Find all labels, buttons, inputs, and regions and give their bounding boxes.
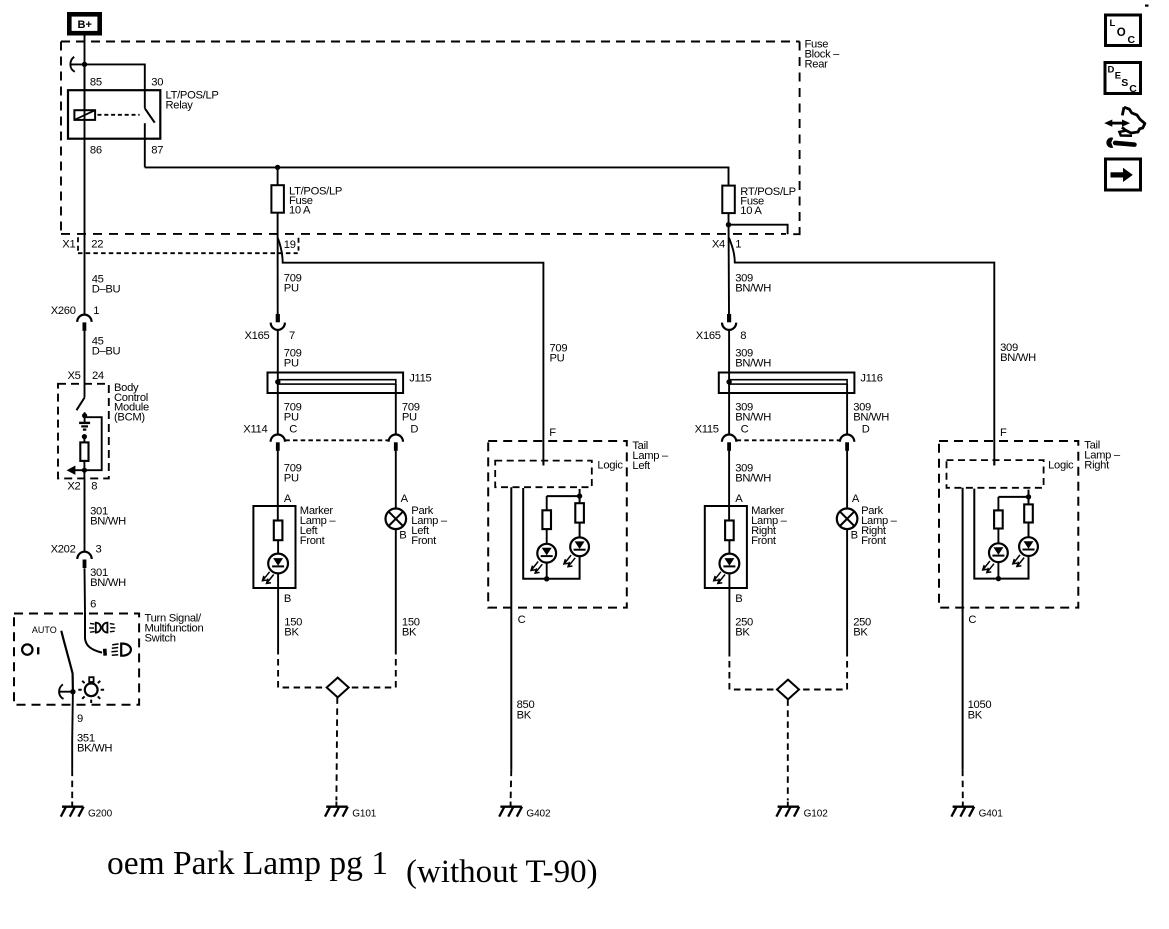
connector row X1/X4 top dashed line	[61, 233, 786, 235]
splice pack J115 box	[268, 373, 432, 394]
relay switch blade	[145, 108, 155, 122]
svg-text:F: F	[1000, 427, 1007, 439]
wire coil bottom (86) down to X1 pin 22	[84, 64, 86, 314]
park lamp contact nub	[103, 649, 107, 656]
J116 bus bar	[729, 380, 847, 384]
svg-text:C: C	[968, 614, 976, 626]
connector X202 labels	[51, 544, 102, 556]
tail right resistor 1	[994, 510, 1003, 528]
svg-text:X202: X202	[51, 544, 76, 556]
svg-text:BK: BK	[735, 627, 750, 639]
icon LOC button	[1106, 15, 1141, 46]
svg-text:B: B	[399, 530, 406, 542]
svg-text:D: D	[1108, 65, 1115, 76]
wire label 250 BK left	[735, 617, 753, 639]
BCM dashed box	[58, 382, 149, 478]
connector X165-8 labels	[696, 330, 747, 342]
svg-text:X5: X5	[68, 370, 81, 382]
wire stub right of RT fuse node	[729, 225, 788, 235]
svg-text:C: C	[741, 424, 749, 436]
marker lamp left front box	[253, 493, 336, 605]
svg-text:AUTO: AUTO	[32, 625, 57, 635]
svg-text:87: 87	[151, 144, 163, 156]
wire label 45 D-BU lower	[92, 336, 121, 358]
wire label 351 BK/WH	[77, 733, 112, 755]
tail lamp right internal frame	[974, 489, 1028, 579]
svg-text:BN/WH: BN/WH	[735, 357, 771, 369]
tail right resistor 2	[1024, 504, 1033, 522]
svg-text:BK: BK	[853, 627, 868, 639]
wire label 45 D-BU upper	[92, 274, 121, 296]
panel lamp icon	[78, 677, 104, 703]
svg-text:B: B	[735, 593, 742, 605]
wire label 309 BN/WH below J116 right	[853, 402, 889, 424]
svg-text:PU: PU	[284, 473, 299, 485]
wire junction down to relay coil (pin 85)	[84, 64, 86, 110]
connector X115 pin C	[722, 435, 736, 451]
splice right front lamps	[777, 680, 799, 700]
marker lamp right resistor	[725, 521, 734, 541]
svg-text:BK: BK	[968, 710, 983, 722]
turn signal multifunction switch dashed box	[14, 613, 203, 705]
svg-text:24: 24	[92, 370, 104, 382]
connector X165 pin 8	[722, 314, 736, 330]
switch common squiggle	[59, 684, 73, 699]
wire X115 C to marker lamp right	[728, 451, 730, 521]
connector X260 labels	[51, 305, 100, 317]
svg-text:B: B	[851, 530, 858, 542]
svg-text:BN/WH: BN/WH	[853, 412, 889, 424]
wire marker right B down	[728, 588, 730, 650]
node switch output junction	[70, 689, 75, 694]
tail left LED 1	[531, 544, 556, 573]
tail lamp left branch 1	[546, 496, 548, 510]
icon next-page button	[1106, 159, 1141, 190]
svg-text:Logic: Logic	[1048, 460, 1074, 472]
BCM internal node 2	[82, 434, 87, 439]
fuse LT/POS/LP 10A	[271, 185, 342, 216]
AUTO indicator circle	[22, 644, 38, 654]
svg-text:Right: Right	[1084, 460, 1110, 472]
BCM internal supply bars	[79, 423, 90, 430]
svg-text:10 A: 10 A	[740, 205, 762, 217]
wire label 301 BN/WH lower	[90, 567, 126, 589]
svg-text:PU: PU	[284, 283, 299, 295]
ground G401	[951, 802, 1003, 820]
wire branch X4-1 to tail lamp right F	[729, 238, 994, 465]
svg-text:3: 3	[96, 544, 102, 556]
svg-text:PU: PU	[550, 353, 565, 365]
svg-text:Front: Front	[300, 535, 326, 547]
svg-text:A: A	[852, 493, 860, 505]
wire B+ down to junction	[84, 36, 86, 65]
BCM internal switch	[77, 398, 85, 411]
svg-text:G200: G200	[88, 809, 113, 820]
svg-text:85: 85	[90, 77, 102, 89]
wire X260 to BCM	[84, 331, 86, 398]
svg-text:D: D	[410, 424, 418, 436]
svg-text:C: C	[1129, 83, 1137, 95]
svg-text:oem Park Lamp pg 1: oem Park Lamp pg 1	[107, 845, 388, 882]
connector X115 pin D	[840, 435, 854, 451]
switch lever	[61, 631, 73, 692]
svg-text:X1: X1	[62, 239, 75, 251]
svg-text:Switch: Switch	[145, 633, 176, 645]
marker lamp right front box	[705, 493, 788, 605]
wire dashed park right to splice	[799, 650, 847, 690]
wire resistor to LED right	[728, 540, 730, 588]
ground G101	[325, 802, 377, 820]
wire through J116	[728, 373, 730, 435]
wire tail right C down	[962, 488, 964, 770]
connector X5 labels	[68, 370, 104, 382]
svg-text:BK: BK	[517, 710, 532, 722]
svg-text:BN/WH: BN/WH	[735, 412, 771, 424]
tail lamp right dashed box	[939, 440, 1121, 608]
fuse RT/POS/LP 10A	[722, 186, 796, 218]
wire J116 bus to X115 D	[846, 384, 848, 434]
svg-text:Relay: Relay	[166, 100, 194, 112]
svg-text:Front: Front	[861, 535, 887, 547]
BCM output arrow	[67, 466, 85, 475]
wire pin 87 down to feed bus	[144, 123, 146, 167]
headlamp icon	[111, 644, 131, 656]
svg-text:BN/WH: BN/WH	[90, 516, 126, 528]
wire branch X1-19 to tail lamp left F	[278, 238, 544, 465]
wire J115 bus to X114 D	[395, 384, 397, 434]
relay coil-switch dashed link	[98, 114, 140, 116]
tail lamp left top link	[547, 495, 580, 497]
svg-text:BK: BK	[402, 627, 417, 639]
wire resistor to LED	[277, 540, 279, 588]
wire label 301 BN/WH upper	[90, 506, 126, 528]
svg-text:X165: X165	[696, 330, 721, 342]
tail lamp right top link	[998, 496, 1028, 498]
node junction below B+	[82, 62, 87, 67]
switch input wire curving to park contact	[85, 614, 102, 653]
svg-text:F: F	[549, 427, 556, 439]
connector X260 pin 1	[77, 315, 91, 331]
svg-text:B+: B+	[78, 19, 92, 31]
marker lamp left resistor	[274, 521, 283, 541]
svg-text:C: C	[1128, 34, 1136, 46]
wire X114 D to park lamp	[395, 451, 397, 509]
BCM internal bypass wire	[84, 417, 101, 470]
tail lamp right logic dashed box	[947, 460, 1075, 488]
wire through J115	[277, 373, 279, 435]
splice pack J116 box	[719, 373, 883, 394]
svg-text:G401: G401	[979, 809, 1004, 820]
ground G402	[499, 802, 551, 820]
svg-text:J115: J115	[409, 373, 431, 385]
svg-text:O: O	[1117, 27, 1126, 39]
park lamp right front	[837, 493, 898, 547]
icon DESC button	[1105, 63, 1141, 96]
svg-text:1: 1	[93, 305, 99, 317]
tail lamp left internal frame	[523, 488, 579, 579]
wire dashed splice to G102	[787, 699, 789, 800]
svg-text:8: 8	[740, 330, 746, 342]
wire dashed C to G402	[510, 770, 513, 801]
svg-text:(without T-90): (without T-90)	[406, 854, 598, 890]
svg-text:G102: G102	[804, 809, 829, 820]
svg-text:C: C	[289, 424, 297, 436]
svg-text:L: L	[1110, 18, 1116, 29]
svg-text:J116: J116	[860, 373, 882, 385]
connector labels X1 22 19 X4 1	[62, 238, 741, 251]
wire label 709 PU below J115 left	[284, 402, 302, 424]
svg-text:B: B	[284, 593, 291, 605]
tail lamp right branch 1	[997, 497, 999, 511]
svg-text:8: 8	[91, 481, 97, 493]
park lamps icon	[89, 623, 115, 633]
svg-text:X4: X4	[712, 239, 725, 251]
svg-text:BN/WH: BN/WH	[735, 283, 771, 295]
tail lamp left dashed box	[488, 440, 669, 608]
BCM internal node 1	[84, 412, 86, 423]
svg-text:A: A	[284, 493, 292, 505]
node fuse tap	[275, 165, 280, 170]
connector X165-7 labels	[245, 330, 296, 342]
wire label 150 BK left	[284, 617, 302, 639]
svg-text:A: A	[735, 493, 743, 505]
svg-text:7: 7	[289, 330, 295, 342]
wire label 309 BN/WH above J116	[735, 347, 771, 369]
svg-text:Left: Left	[632, 460, 651, 472]
connector X114 labels	[243, 424, 418, 436]
wire label 709 PU above J115	[284, 347, 302, 369]
svg-text:PU: PU	[284, 412, 299, 424]
svg-text:30: 30	[151, 77, 163, 89]
wire label 850 BK	[517, 699, 535, 722]
svg-text:BK: BK	[284, 627, 299, 639]
node J116 tap	[726, 379, 731, 384]
svg-text:19: 19	[284, 239, 296, 251]
tail right LED 2	[1013, 537, 1038, 566]
svg-text:(BCM): (BCM)	[114, 412, 145, 424]
wire RT fuse to X4 pin 1	[728, 213, 731, 314]
wire label 309 BN/WH below J116 left	[735, 402, 771, 424]
tail left resistor 1	[542, 510, 551, 529]
svg-text:PU: PU	[402, 412, 417, 424]
wire dashed marker to splice	[278, 648, 326, 688]
icon connector-view (arrow into cavity + wrench)	[1104, 107, 1145, 150]
J115 bus bar	[278, 380, 396, 384]
wire label 709 PU below J115 right	[402, 402, 420, 424]
svg-text:D: D	[862, 424, 870, 436]
tail left LED 2	[564, 537, 589, 566]
wire label 309 BN/WH tail right feed	[1000, 342, 1036, 364]
wire X165 to J115	[277, 330, 279, 372]
svg-text:86: 86	[90, 144, 102, 156]
svg-text:22: 22	[91, 239, 103, 251]
svg-text:6: 6	[90, 599, 96, 611]
connector X114 pin C	[271, 435, 285, 451]
svg-text:9: 9	[77, 713, 83, 725]
wire BCM to X202	[84, 478, 86, 551]
wire label 309 BN/WH below pin X4-1	[735, 273, 771, 295]
svg-text:X2: X2	[67, 481, 80, 493]
wire label 150 BK right	[402, 617, 420, 639]
svg-text:BN/WH: BN/WH	[735, 473, 771, 485]
wire dashed splice to G101	[335, 697, 338, 800]
relay LT/POS/LP K-box	[68, 90, 219, 139]
wire X202 to multifunction switch	[84, 568, 87, 613]
splice left front lamps	[327, 678, 349, 698]
wire X115 D to park lamp right	[846, 451, 848, 509]
wire label 709 PU above marker	[284, 463, 302, 485]
relay coil	[74, 110, 95, 120]
wire F into logic left	[542, 461, 544, 466]
wire X114 C to marker lamp	[277, 451, 279, 521]
node J115 tap	[275, 379, 280, 384]
fusible-link squiggle at junction	[70, 57, 84, 72]
fuse block rear dashed box	[61, 39, 840, 235]
svg-text:X114: X114	[243, 424, 267, 436]
tail right LED 1	[983, 543, 1008, 572]
svg-text:C: C	[518, 614, 526, 626]
svg-text:BN/WH: BN/WH	[1000, 352, 1036, 364]
wire dashed park to splice	[349, 648, 396, 688]
svg-text:BK/WH: BK/WH	[77, 743, 112, 755]
svg-text:X115: X115	[695, 424, 719, 436]
BCM internal node 3	[83, 461, 85, 479]
svg-text:G402: G402	[526, 809, 551, 820]
svg-text:X165: X165	[245, 330, 270, 342]
svg-text:E: E	[1115, 70, 1121, 81]
ground G200	[61, 802, 113, 820]
wire X165 to J116	[728, 330, 730, 372]
svg-text:Logic: Logic	[597, 460, 623, 472]
svg-text:10 A: 10 A	[289, 205, 311, 217]
tail left resistor 2	[575, 503, 584, 522]
wire label 709 PU below pin 19	[284, 273, 302, 295]
marker lamp right LED	[714, 554, 740, 584]
ground G102	[776, 802, 828, 820]
wire marker B down	[277, 588, 279, 648]
connector X1 end ticks	[77, 237, 79, 251]
wire switch output down	[71, 692, 74, 770]
wire label 1050 BK	[968, 699, 992, 722]
park lamp left front	[386, 493, 448, 547]
svg-text:D–BU: D–BU	[92, 346, 121, 358]
svg-text:A: A	[401, 493, 409, 505]
svg-text:Rear: Rear	[805, 59, 829, 71]
wire label 709 PU tail left feed	[550, 343, 568, 365]
BCM internal resistor	[80, 442, 88, 461]
svg-text:Front: Front	[411, 535, 437, 547]
svg-text:S: S	[1121, 77, 1128, 89]
connector X2 labels	[67, 481, 97, 493]
svg-text:BN/WH: BN/WH	[90, 577, 126, 589]
tiny mark top right	[1145, 5, 1149, 7]
svg-text:X260: X260	[51, 305, 76, 317]
connector X114 pin D	[389, 435, 403, 451]
tail lamp left logic dashed box	[495, 460, 623, 488]
connector X115 dashed link	[737, 439, 840, 441]
wire LT fuse to X1 pin 19	[277, 213, 279, 314]
wire feed bus 87 to fuses	[145, 167, 729, 185]
wire label 250 BK right	[853, 617, 871, 639]
svg-text:1: 1	[735, 238, 741, 250]
wire junction to relay pin 30	[85, 64, 145, 108]
connector X115 labels	[695, 424, 870, 436]
wire F into logic right	[993, 460, 995, 465]
node below RT fuse	[726, 222, 731, 227]
connector row X1 bottom dashed line	[78, 252, 298, 254]
svg-text:G101: G101	[352, 809, 377, 820]
wire tail left C down	[510, 487, 512, 769]
connector X114 dashed link	[285, 439, 388, 441]
relay pin labels	[90, 77, 163, 157]
svg-text:PU: PU	[284, 357, 299, 369]
wire tap to LT fuse	[277, 167, 279, 185]
wire park right B down	[846, 529, 848, 650]
wire dashed marker right to splice	[729, 650, 777, 690]
wire label 309 BN/WH above marker right	[735, 463, 771, 485]
connector X165 pin 7	[271, 314, 285, 330]
connector X202 pin 3	[77, 552, 91, 568]
wire park lamp B down	[395, 529, 397, 648]
wire dashed C to G401	[962, 770, 964, 801]
B+ terminal	[69, 14, 99, 33]
svg-text:Front: Front	[751, 535, 777, 547]
wire dashed to G200	[71, 770, 73, 801]
marker lamp left LED	[262, 554, 288, 584]
svg-text:D–BU: D–BU	[92, 284, 121, 296]
